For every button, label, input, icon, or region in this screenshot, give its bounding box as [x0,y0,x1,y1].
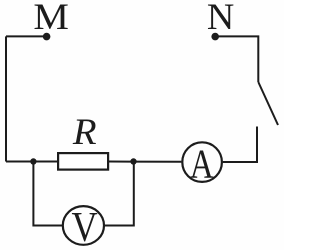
ammeter A1 [182,142,222,182]
wire resistor to ammeter [109,161,181,163]
wire from M terminal to top-left corner [6,35,47,37]
resistor R [58,153,108,170]
switch S1 blade (open) [258,82,278,125]
svg-text:R: R [72,112,97,153]
voltmeter V1 [63,206,104,245]
svg-text:A: A [190,141,214,187]
wire ammeter to switch bottom [223,127,257,163]
terminal N [211,33,219,41]
wire left vertical [5,36,7,161]
svg-text:M: M [33,0,69,37]
wire voltmeter branch right [105,162,134,226]
node left junction [30,158,36,164]
svg-text:N: N [207,0,234,37]
wire bottom-left corner to resistor [6,161,57,163]
terminal M [43,33,51,41]
wire switch top vertical [215,36,258,82]
svg-text:V: V [72,204,98,250]
wire voltmeter branch left [33,162,63,226]
node right junction [130,158,136,164]
